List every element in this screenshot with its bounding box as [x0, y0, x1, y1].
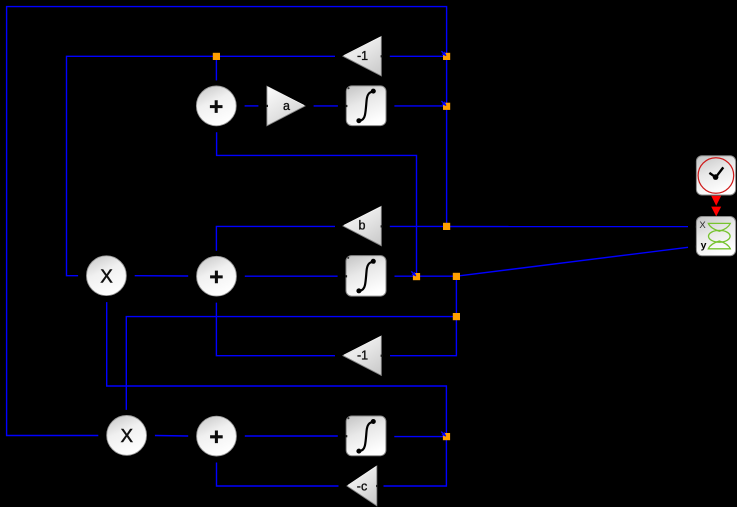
svg-text:a: a [283, 99, 290, 113]
svg-text:X: X [121, 425, 133, 446]
svg-text:b: b [359, 219, 366, 233]
svg-text:-1: -1 [357, 49, 368, 63]
svg-text:X: X [100, 265, 112, 286]
svg-text:y: y [701, 240, 707, 252]
svg-text:X: X [699, 220, 706, 231]
svg-text:-c: -c [357, 480, 367, 494]
svg-text:-1: -1 [357, 349, 368, 363]
